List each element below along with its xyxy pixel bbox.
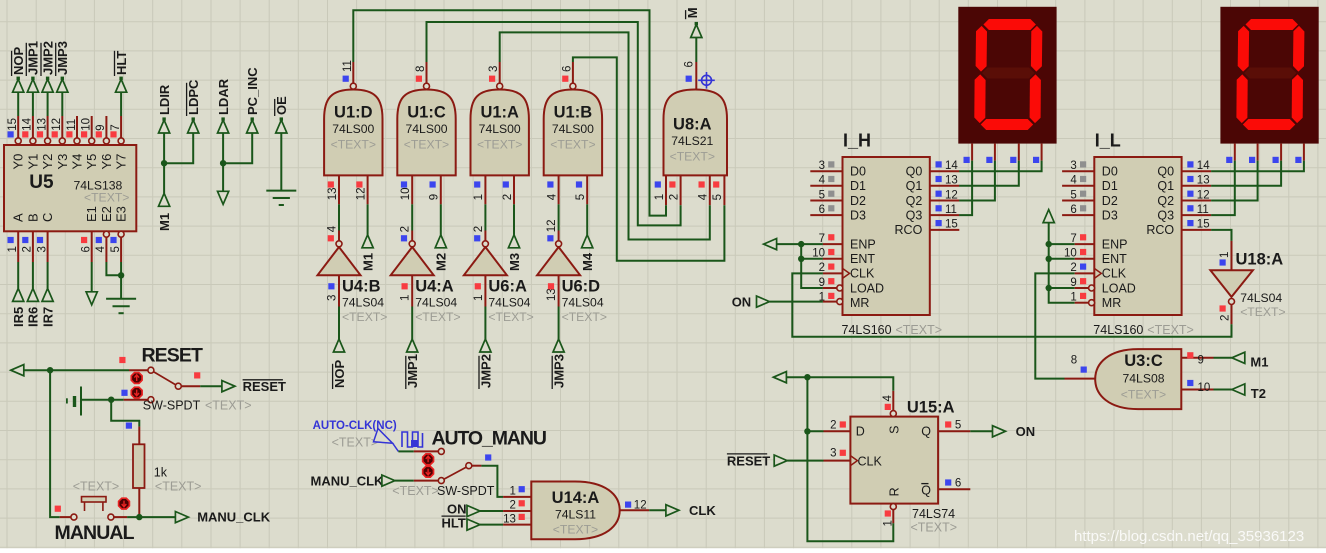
7-segment display left body bbox=[958, 7, 1056, 144]
NAND gate U1:D 74LS00 body bbox=[324, 90, 382, 176]
terminal LDAR (up arrow) bbox=[218, 120, 229, 133]
wire NAND input to inverter U4:A output bbox=[411, 204, 413, 230]
down-arrow terminal under LDAR bbox=[218, 191, 229, 204]
svg-text:Y7: Y7 bbox=[114, 154, 129, 170]
svg-text:ENT: ENT bbox=[1102, 252, 1127, 266]
wire U4:A input to terminal JMP1 bbox=[411, 307, 413, 340]
svg-text:U1:D: U1:D bbox=[334, 104, 373, 122]
svg-text:Y6: Y6 bbox=[99, 154, 114, 170]
I_L pin D0 bbox=[1062, 170, 1094, 172]
U5 pin Y0 (pin 15) bbox=[15, 138, 21, 144]
svg-text:MANU_CLK: MANU_CLK bbox=[311, 473, 385, 488]
wires I_H Q0-Q3 to left display bbox=[959, 161, 1042, 172]
U8:A output pin 6 bbox=[695, 62, 697, 90]
svg-text:M4: M4 bbox=[580, 252, 595, 271]
U5 pin Y4 (pin 11) bbox=[74, 138, 80, 144]
junction LDAR/PC_INC bbox=[220, 160, 226, 166]
wire NAND input to inverter U6:D output bbox=[558, 204, 560, 230]
U5 pin Y2 (pin 13) bbox=[45, 138, 51, 144]
switch AUTO_MANU SW-SPDT contacts and arm bbox=[438, 448, 444, 454]
U5 E1 wire to down-arrow terminal bbox=[91, 231, 93, 262]
svg-text:<TEXT>: <TEXT> bbox=[562, 310, 607, 324]
svg-text:B: B bbox=[25, 213, 40, 222]
wire NAND input to inverter U4:B output bbox=[338, 204, 340, 230]
wire U4:B input to terminal NOP bbox=[338, 307, 340, 340]
svg-text:4: 4 bbox=[546, 193, 558, 200]
svg-text:74LS74: 74LS74 bbox=[912, 507, 955, 521]
svg-text:11: 11 bbox=[1197, 204, 1209, 216]
svg-text:6: 6 bbox=[1070, 204, 1076, 216]
terminal M4 (up arrow) bbox=[582, 235, 593, 248]
wire OE to ground bbox=[280, 134, 282, 191]
svg-text:IR5: IR5 bbox=[11, 307, 26, 327]
display left segment B (top-right, lit) bbox=[1031, 26, 1042, 72]
NAND gate U1:B 74LS00 body bbox=[544, 90, 602, 176]
terminal JMP1 (up arrow) bbox=[407, 339, 418, 352]
svg-text:3: 3 bbox=[327, 295, 339, 301]
svg-text:U3:C: U3:C bbox=[1124, 352, 1163, 370]
wire NAND input to inverter U6:A output bbox=[484, 204, 486, 230]
RESET switch actuator arrows bbox=[131, 373, 142, 384]
I_L pin D2 bbox=[1062, 200, 1094, 202]
U1:C output bubble pin 8 bbox=[424, 83, 430, 89]
svg-text:CLK: CLK bbox=[1102, 267, 1127, 281]
svg-text:C: C bbox=[40, 213, 55, 222]
svg-text:7: 7 bbox=[1070, 233, 1076, 245]
terminal M1 (up arrow) bbox=[362, 235, 373, 248]
U1:D output bubble pin 11 bbox=[350, 83, 356, 89]
U8:A input pin 1 bbox=[665, 175, 667, 205]
U14:A output pin 12 to terminal CLK bbox=[620, 509, 650, 511]
white band at bottom edge bbox=[0, 548, 1326, 553]
svg-text:<TEXT>: <TEXT> bbox=[205, 399, 252, 413]
svg-text:U6:D: U6:D bbox=[562, 278, 601, 296]
terminal M2 (up arrow) bbox=[435, 235, 446, 248]
svg-text:E1: E1 bbox=[84, 206, 99, 222]
svg-text:ON: ON bbox=[732, 294, 752, 309]
svg-text:6: 6 bbox=[819, 204, 825, 216]
svg-text:74LS00: 74LS00 bbox=[332, 122, 374, 136]
svg-text:14: 14 bbox=[1197, 160, 1210, 172]
counter I_L 74LS160 body bbox=[1094, 157, 1181, 315]
svg-text:U18:A: U18:A bbox=[1236, 250, 1284, 268]
U4:B input pin 3 bbox=[338, 275, 340, 306]
U1:A input pin 2 bbox=[513, 175, 515, 204]
svg-text:A: A bbox=[11, 213, 26, 222]
svg-text:OE: OE bbox=[274, 96, 289, 115]
U1:B input pin 4 bbox=[558, 175, 560, 204]
wire U5 Y3 to terminal JMP3 bbox=[61, 93, 63, 116]
wire NAND right input to terminal M4 bbox=[586, 204, 588, 235]
junction LDIR/LDPC bbox=[161, 160, 167, 166]
U1:A input pin 1 bbox=[484, 175, 486, 204]
svg-text:NOP: NOP bbox=[332, 360, 347, 389]
inverter U18:A 74LS04 body (pointing down) bbox=[1210, 270, 1253, 297]
svg-text:5: 5 bbox=[712, 194, 724, 200]
display right segment E (bottom-left, lit) bbox=[1236, 74, 1247, 123]
svg-text:74LS04: 74LS04 bbox=[342, 296, 384, 310]
wire U5 Y7 to terminal HLT bbox=[120, 93, 122, 116]
svg-text:9: 9 bbox=[1198, 355, 1204, 367]
wire LDIR down to M1 terminal bbox=[163, 134, 165, 194]
display left segment F (top-left, lit) bbox=[976, 26, 987, 72]
U4:A input pin 1 bbox=[411, 275, 413, 306]
svg-text:74LS04: 74LS04 bbox=[415, 296, 457, 310]
svg-text:RCO: RCO bbox=[895, 223, 923, 237]
svg-text:3: 3 bbox=[1070, 160, 1076, 172]
svg-text:8: 8 bbox=[1071, 355, 1077, 367]
svg-text:4: 4 bbox=[819, 175, 826, 187]
svg-text:<TEXT>: <TEXT> bbox=[392, 484, 439, 498]
display right segment A (top, lit) bbox=[1246, 19, 1299, 30]
U3:C output pin 8 bbox=[1065, 378, 1096, 380]
7-segment display right body bbox=[1220, 7, 1318, 144]
svg-text:RESET: RESET bbox=[243, 379, 286, 394]
svg-text:2: 2 bbox=[1219, 315, 1231, 321]
terminal M1 (small up arrow) bbox=[159, 193, 170, 206]
svg-text:74LS00: 74LS00 bbox=[479, 122, 521, 136]
svg-text:Y3: Y3 bbox=[55, 154, 70, 170]
svg-text:7: 7 bbox=[110, 124, 122, 130]
svg-text:<TEXT>: <TEXT> bbox=[477, 138, 522, 152]
U1:D input pin 13 bbox=[338, 175, 340, 204]
svg-text:<TEXT>: <TEXT> bbox=[911, 520, 958, 534]
terminal LDIR (up arrow) bbox=[159, 120, 170, 133]
svg-text:D3: D3 bbox=[1102, 208, 1118, 222]
svg-text:10: 10 bbox=[1198, 382, 1211, 394]
display right segment D (bottom, lit) bbox=[1243, 119, 1296, 130]
svg-text:12: 12 bbox=[355, 188, 367, 201]
ground symbol under OE bbox=[266, 191, 296, 205]
terminal IR6 (up arrow) bbox=[27, 288, 38, 301]
svg-text:U1:A: U1:A bbox=[480, 104, 519, 122]
U1:B input pin 5 bbox=[586, 175, 588, 204]
U1:C input pin 9 bbox=[440, 175, 442, 204]
svg-text:3: 3 bbox=[488, 66, 500, 72]
U18:A output pin 2 bbox=[1231, 305, 1233, 325]
svg-text:CLK: CLK bbox=[850, 267, 875, 281]
I_H pin D3 bbox=[810, 214, 842, 216]
svg-text:9: 9 bbox=[1070, 277, 1076, 289]
display left pins bbox=[971, 144, 973, 161]
display right segment B (top-right, lit) bbox=[1293, 26, 1304, 72]
big left arrow terminal top-left of RESET area bbox=[11, 365, 24, 376]
display left segment C (bottom-right, lit) bbox=[1030, 74, 1041, 123]
svg-text:2: 2 bbox=[473, 226, 485, 232]
svg-text:<TEXT>: <TEXT> bbox=[553, 523, 598, 537]
svg-text:SW-SPDT: SW-SPDT bbox=[437, 484, 495, 498]
svg-text:<TEXT>: <TEXT> bbox=[342, 310, 387, 324]
svg-text:74LS160: 74LS160 bbox=[1093, 323, 1143, 337]
svg-text:<TEXT>: <TEXT> bbox=[415, 310, 460, 324]
svg-text:M3: M3 bbox=[507, 253, 522, 271]
svg-text:6: 6 bbox=[684, 61, 696, 67]
U6:A input pin 1 bbox=[484, 275, 486, 306]
svg-text:RESET: RESET bbox=[727, 453, 770, 468]
I_L pin D3 bbox=[1062, 214, 1094, 216]
U8:A input pin 5 bbox=[723, 175, 725, 205]
svg-text:M: M bbox=[685, 7, 700, 18]
svg-text:1k: 1k bbox=[154, 466, 168, 480]
svg-text:MANUAL: MANUAL bbox=[55, 522, 135, 544]
wire from left arrow to RESET switch NC contact bbox=[24, 369, 129, 371]
svg-text:LOAD: LOAD bbox=[1102, 281, 1136, 295]
svg-text:15: 15 bbox=[7, 118, 19, 131]
svg-text:8: 8 bbox=[415, 66, 427, 72]
wire battery to RESET switch NO contact / resistor bbox=[82, 399, 124, 401]
I_H pin RCO bbox=[930, 229, 960, 231]
svg-text:15: 15 bbox=[1197, 219, 1210, 231]
AND gate U3:C 74LS08 body (pointing left) bbox=[1095, 349, 1181, 409]
I_L pin D1 bbox=[1062, 185, 1094, 187]
I_H LOAD stub and bubble bbox=[823, 287, 837, 289]
svg-text:JMP2: JMP2 bbox=[478, 354, 493, 388]
terminal OE (up arrow) bbox=[276, 120, 287, 133]
svg-text:<TEXT>: <TEXT> bbox=[404, 138, 449, 152]
svg-text:74LS11: 74LS11 bbox=[555, 508, 596, 522]
svg-text:11: 11 bbox=[945, 204, 957, 216]
svg-text:15: 15 bbox=[945, 219, 958, 231]
U5 pin Y1 (pin 14) bbox=[30, 138, 36, 144]
wires I_L Q0-Q3 to right display bbox=[1211, 161, 1304, 172]
terminal IR5 (up arrow) bbox=[13, 288, 24, 301]
U5 pin Y5 (pin 10) bbox=[89, 138, 95, 144]
I_L pin Q0 bbox=[1182, 170, 1212, 172]
svg-text:74LS00: 74LS00 bbox=[552, 122, 594, 136]
svg-text:2: 2 bbox=[830, 420, 836, 432]
svg-text:ENP: ENP bbox=[850, 237, 876, 251]
svg-text:12: 12 bbox=[51, 118, 63, 131]
inverter U6:D 74LS04 body bbox=[537, 247, 580, 275]
svg-text:U15:A: U15:A bbox=[907, 398, 955, 416]
svg-text:Q1: Q1 bbox=[1157, 179, 1174, 193]
display right segment C (bottom-right, lit) bbox=[1292, 74, 1303, 123]
display left segment E (bottom-left, lit) bbox=[974, 74, 985, 123]
svg-text:JMP3: JMP3 bbox=[55, 41, 70, 75]
wire U18:A output to I_H CLK (long feedback wire) bbox=[792, 273, 1231, 336]
svg-text:14: 14 bbox=[22, 117, 34, 130]
svg-text:10: 10 bbox=[400, 188, 412, 201]
U15:A S pin 4 (top, bubble) bbox=[890, 411, 896, 417]
svg-text:IR7: IR7 bbox=[40, 307, 55, 327]
I_L pin Q2 bbox=[1182, 200, 1212, 202]
svg-text:1: 1 bbox=[1219, 252, 1231, 258]
counter I_H 74LS160 body bbox=[843, 157, 930, 315]
U15:A Q pin 5 to terminal ON bbox=[938, 430, 970, 432]
resistor bottom lead to MANU_CLK junction bbox=[138, 488, 140, 517]
terminal NOP (up arrow) bbox=[333, 339, 344, 352]
I_L LOAD stub and bubble bbox=[1075, 287, 1089, 289]
svg-text:MR: MR bbox=[850, 296, 869, 310]
U6:D input pin 13 bbox=[558, 275, 560, 306]
display right segment G (middle, unlit) bbox=[1244, 68, 1297, 79]
svg-text:D2: D2 bbox=[850, 194, 866, 208]
svg-text:12: 12 bbox=[546, 220, 558, 233]
svg-text:I_L: I_L bbox=[1095, 131, 1121, 151]
terminal NOP (input, up arrow) bbox=[13, 79, 24, 92]
svg-text:<TEXT>: <TEXT> bbox=[488, 310, 533, 324]
svg-text:4: 4 bbox=[95, 246, 107, 253]
svg-text:JMP2: JMP2 bbox=[40, 41, 55, 75]
NAND gate U1:C 74LS00 body bbox=[397, 90, 455, 176]
svg-text:D1: D1 bbox=[850, 179, 866, 193]
svg-text:<TEXT>: <TEXT> bbox=[1240, 305, 1285, 319]
svg-text:14: 14 bbox=[945, 160, 958, 172]
U1:C input pin 10 bbox=[411, 175, 413, 204]
svg-text:E3: E3 bbox=[114, 206, 129, 222]
svg-text:LOAD: LOAD bbox=[850, 281, 884, 295]
terminal JMP2 (input, up arrow) bbox=[42, 79, 53, 92]
battery symbol bbox=[67, 387, 81, 416]
wire U8:A output to terminal M-bar bbox=[695, 38, 697, 62]
inverter U4:B 74LS04 body bbox=[318, 247, 361, 275]
I_H pin D2 bbox=[810, 200, 842, 202]
svg-text:CLK: CLK bbox=[689, 503, 716, 518]
U1:D input pin 12 bbox=[367, 175, 369, 204]
flip-flop U15:A 74LS74 body bbox=[850, 417, 938, 504]
svg-text:T2: T2 bbox=[1251, 386, 1266, 401]
U5 pin Y7 (pin 7) bbox=[118, 138, 124, 144]
svg-text:RCO: RCO bbox=[1146, 223, 1174, 237]
svg-text:6: 6 bbox=[561, 66, 573, 72]
svg-text:1: 1 bbox=[473, 295, 485, 301]
U1:B output bubble pin 6 bbox=[570, 83, 576, 89]
svg-text:M1: M1 bbox=[360, 253, 375, 271]
svg-text:M1: M1 bbox=[157, 213, 172, 231]
U5 E2 bubble and wire bbox=[103, 231, 109, 237]
svg-text:74LS04: 74LS04 bbox=[1240, 291, 1282, 305]
svg-text:Q2: Q2 bbox=[906, 194, 923, 208]
svg-text:D2: D2 bbox=[1102, 194, 1118, 208]
I_L MR stub and bubble bbox=[1075, 302, 1089, 304]
svg-text:4: 4 bbox=[327, 225, 339, 232]
svg-text:U1:B: U1:B bbox=[554, 104, 593, 122]
svg-text:LDAR: LDAR bbox=[216, 78, 231, 115]
resistor 1k body bbox=[133, 444, 145, 488]
svg-text:1: 1 bbox=[1070, 292, 1076, 304]
svg-text:M2: M2 bbox=[434, 253, 449, 271]
junction E2/E3 bbox=[118, 272, 124, 278]
svg-text:12: 12 bbox=[945, 189, 958, 201]
svg-text:<TEXT>: <TEXT> bbox=[73, 479, 120, 493]
I_H pin D0 bbox=[810, 170, 842, 172]
decoder U5 74LS138 body bbox=[4, 145, 136, 231]
terminal (down arrow) on E1 bbox=[86, 292, 97, 305]
svg-text:5: 5 bbox=[819, 189, 825, 201]
svg-text:AUTO-CLK(NC): AUTO-CLK(NC) bbox=[313, 420, 397, 432]
display left segment D (bottom, lit) bbox=[981, 119, 1033, 130]
svg-text:https://blog.csdn.net/qq_35936: https://blog.csdn.net/qq_35936123 bbox=[1074, 528, 1304, 545]
svg-text:4: 4 bbox=[698, 193, 710, 200]
svg-text:4: 4 bbox=[1070, 175, 1077, 187]
svg-text:2: 2 bbox=[509, 500, 515, 512]
svg-text:1: 1 bbox=[473, 194, 485, 200]
wire AUTO_MANU pole to U14:A pin 1 bbox=[472, 465, 482, 467]
AND gate U8:A 74LS21 body bbox=[664, 90, 728, 176]
NAND gate U1:A 74LS00 body bbox=[471, 90, 529, 176]
I_H pin D1 bbox=[810, 185, 842, 187]
terminal M3 (up arrow) bbox=[508, 235, 519, 248]
svg-text:5: 5 bbox=[1070, 189, 1076, 201]
svg-text:<TEXT>: <TEXT> bbox=[155, 479, 202, 493]
svg-text:74LS08: 74LS08 bbox=[1122, 372, 1164, 386]
svg-text:10: 10 bbox=[81, 118, 93, 131]
svg-text:1: 1 bbox=[654, 194, 666, 200]
svg-text:12: 12 bbox=[634, 500, 647, 512]
wire net U1:A out to U8 pin 4 bbox=[500, 32, 710, 239]
wire NAND right input to terminal M3 bbox=[513, 204, 515, 235]
svg-text:13: 13 bbox=[503, 513, 516, 525]
svg-text:<TEXT>: <TEXT> bbox=[896, 323, 943, 337]
terminal M-bar (up arrow) bbox=[691, 25, 702, 38]
svg-text:<TEXT>: <TEXT> bbox=[1147, 323, 1194, 337]
wire NAND right input to terminal M2 bbox=[440, 204, 442, 235]
svg-text:NOP: NOP bbox=[11, 47, 26, 76]
svg-text:U6:A: U6:A bbox=[488, 278, 527, 296]
svg-text:JMP3: JMP3 bbox=[552, 354, 567, 388]
AUTO_MANU switch actuators bbox=[423, 454, 434, 465]
svg-text:JMP1: JMP1 bbox=[26, 41, 41, 75]
wire U5 Y0 to terminal NOP bbox=[17, 93, 19, 116]
wire U5 Y2 to terminal JMP2 bbox=[47, 93, 49, 116]
svg-text:<TEXT>: <TEXT> bbox=[332, 436, 379, 450]
U5 pin Y3 (pin 12) bbox=[59, 138, 65, 144]
svg-text:5: 5 bbox=[575, 194, 587, 200]
terminal PC_INC (up arrow) bbox=[247, 120, 258, 133]
svg-text:Q3: Q3 bbox=[906, 208, 923, 222]
svg-text:MANU_CLK: MANU_CLK bbox=[197, 510, 271, 525]
wire clock source to AUTO_MANU switch NC contact bbox=[398, 450, 413, 452]
U3:C input pin 9 from terminal M1 bbox=[1181, 357, 1213, 359]
terminal JMP2 (up arrow) bbox=[480, 339, 491, 352]
I_H pin Q1 bbox=[930, 185, 960, 187]
svg-text:10: 10 bbox=[1064, 248, 1077, 260]
U1:A output bubble pin 3 bbox=[497, 83, 503, 89]
switch RESET SW-SPDT contacts and arm bbox=[148, 367, 154, 373]
svg-text:S: S bbox=[888, 425, 902, 433]
svg-text:74LS04: 74LS04 bbox=[562, 296, 604, 310]
no-ERC marker (blue crosshair) near U8 output bbox=[698, 72, 715, 89]
svg-text:D: D bbox=[856, 425, 865, 439]
push button MANUAL bbox=[71, 514, 77, 520]
svg-text:13: 13 bbox=[945, 175, 958, 187]
svg-text:ENT: ENT bbox=[850, 252, 875, 266]
svg-text:9: 9 bbox=[95, 124, 107, 130]
svg-text:Q0: Q0 bbox=[906, 165, 923, 179]
U8:A input pin 4 bbox=[709, 175, 711, 205]
I_H pin Q0 bbox=[930, 170, 960, 172]
svg-text:PC_INC: PC_INC bbox=[245, 67, 260, 115]
svg-text:Y2: Y2 bbox=[40, 154, 55, 170]
wire NAND right input to terminal M1 bbox=[367, 204, 369, 235]
svg-text:CLK: CLK bbox=[858, 454, 883, 468]
svg-text:Q3: Q3 bbox=[1157, 208, 1174, 222]
I_L pin RCO bbox=[1182, 229, 1212, 231]
wire RESET switch pole to terminal RESET-bar bbox=[181, 385, 200, 387]
svg-text:JMP1: JMP1 bbox=[405, 354, 420, 388]
display right segment F (top-left, lit) bbox=[1238, 26, 1249, 72]
U5 E3 bubble and wire to ground bbox=[118, 231, 124, 237]
svg-text:13: 13 bbox=[327, 188, 339, 201]
svg-text:Q2: Q2 bbox=[1157, 194, 1174, 208]
svg-text:E2: E2 bbox=[99, 206, 114, 222]
wire net U1:D out to U8 pin 1 bbox=[353, 10, 666, 215]
I_H CLK stub bbox=[823, 272, 843, 274]
wire I_L RCO to U18:A input bbox=[1211, 230, 1231, 241]
AND gate U14:A 74LS11 body (pointing right) bbox=[531, 482, 619, 540]
svg-text:1: 1 bbox=[819, 292, 825, 304]
terminal HLT (up arrow) bbox=[116, 79, 127, 92]
